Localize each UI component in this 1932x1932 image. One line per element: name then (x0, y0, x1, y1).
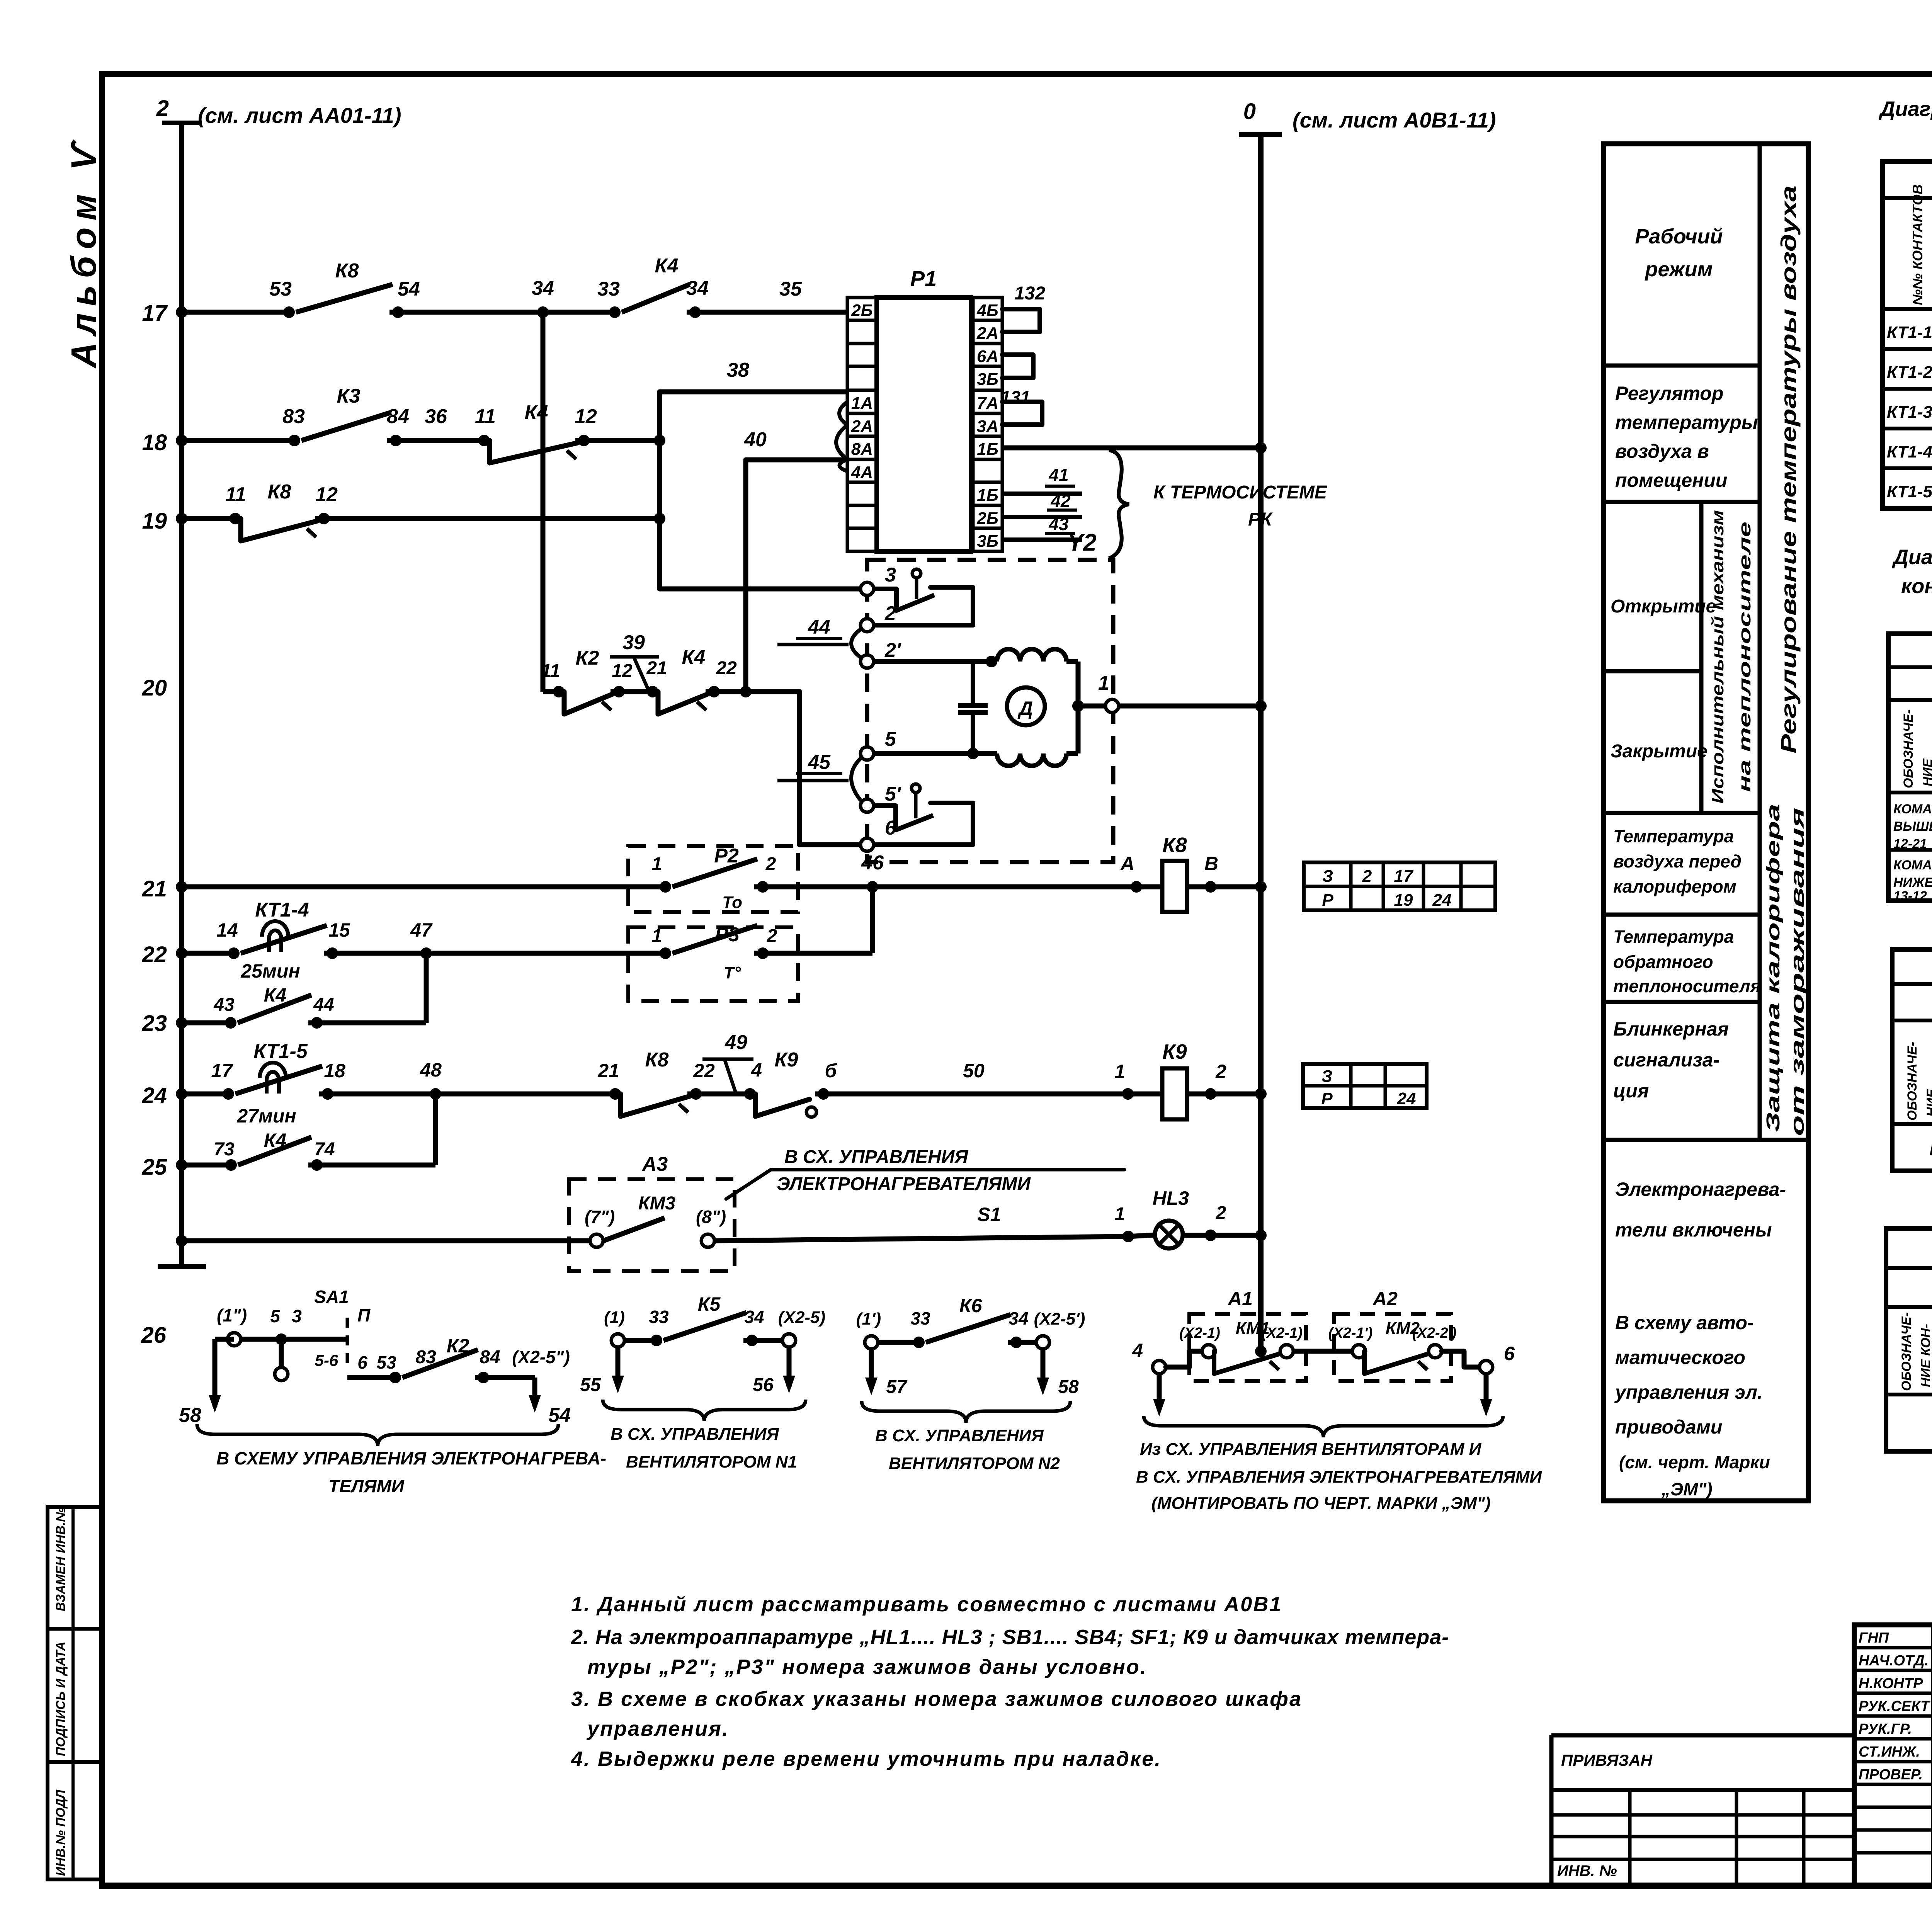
svg-text:НИЕ: НИЕ (1924, 1088, 1932, 1117)
row26 branch to 58 (215, 1337, 234, 1342)
svg-text:теплоносителя: теплоносителя (1613, 976, 1761, 996)
svg-text:К ТЕРМОСИСТЕМЕ: К ТЕРМОСИСТЕМЕ (1153, 482, 1328, 503)
P1 left jumpers 1A-2A-8A-4A (836, 402, 847, 471)
svg-text:1: 1 (652, 854, 662, 874)
svg-text:42: 42 (1050, 491, 1071, 511)
P1 right terminal 3Б (973, 528, 1002, 551)
svg-text:К3: К3 (337, 385, 361, 407)
svg-text:К4: К4 (525, 401, 548, 424)
P1 right terminal 6А (973, 344, 1002, 366)
svg-text:4. Выдержки реле времени ут: 4. Выдержки реле времени уточнить при на… (571, 1747, 1162, 1770)
wire P1-1B to bus 0 (1002, 446, 1261, 451)
terminal block P1 body (877, 298, 971, 551)
svg-text:27мин: 27мин (236, 1105, 296, 1127)
svg-text:НАЧ.ОТД.: НАЧ.ОТД. (1859, 1653, 1929, 1669)
svg-text:43: 43 (1048, 514, 1069, 534)
contact K3 83-84 row18 (301, 413, 390, 440)
P1 left terminal blank2 (847, 344, 877, 366)
svg-text:2Б: 2Б (851, 301, 873, 320)
svg-text:ПРОВЕР.: ПРОВЕР. (1859, 1767, 1923, 1783)
svg-text:К8: К8 (645, 1049, 669, 1071)
svg-text:„ЭМ"): „ЭМ") (1661, 1479, 1713, 1499)
A2 dashed box (1334, 1314, 1451, 1381)
Y2 terminal 2 (861, 619, 874, 632)
Y2 wire 5 line (874, 751, 997, 756)
svg-text:К8: К8 (1162, 833, 1187, 857)
svg-text:26: 26 (141, 1323, 166, 1348)
wire row 19 (182, 516, 235, 521)
svg-text:21: 21 (646, 658, 667, 679)
feeder vertical 34 to row 20 (541, 312, 546, 692)
svg-text:17: 17 (211, 1060, 233, 1082)
svg-text:ВЫШЕ: ВЫШЕ (1893, 819, 1932, 834)
svg-text:КОМАНДА: КОМАНДА (1893, 802, 1932, 816)
svg-text:24: 24 (1432, 891, 1452, 910)
P1 right loop to 131 (1002, 355, 1033, 378)
svg-text:49: 49 (724, 1031, 747, 1054)
svg-text:2: 2 (1216, 1203, 1226, 1223)
svg-text:1Б: 1Б (977, 440, 998, 459)
svg-text:К8: К8 (335, 260, 359, 282)
Y2 lower limit switch (874, 806, 896, 830)
svg-text:КТ1-4: КТ1-4 (255, 899, 309, 921)
svg-text:КМ3: КМ3 (638, 1193, 675, 1214)
svg-text:То: То (722, 893, 742, 912)
P1 right terminal 7А (973, 390, 1002, 413)
callout 49 row24 (724, 1059, 736, 1094)
row lines BC table (1883, 347, 1932, 351)
svg-text:В: В (1204, 853, 1218, 874)
feeder vertical to Y2-3 (660, 392, 867, 589)
legend table frame (1604, 144, 1808, 1501)
contact K4 11-12 row18 (490, 440, 578, 463)
svg-text:К5: К5 (698, 1293, 721, 1315)
svg-text:(Х2-5"): (Х2-5") (512, 1347, 570, 1367)
svg-text:Регулятор: Регулятор (1615, 383, 1723, 404)
P1 right terminal rblank7 (973, 459, 1002, 482)
svg-text:11: 11 (541, 661, 560, 681)
svg-text:34: 34 (532, 277, 554, 299)
svg-text:40: 40 (744, 429, 767, 451)
svg-text:33: 33 (649, 1307, 669, 1327)
svg-text:3Б: 3Б (977, 532, 998, 551)
svg-text:25мин: 25мин (240, 960, 300, 982)
svg-text:12: 12 (612, 661, 633, 681)
svg-text:помещении: помещении (1615, 469, 1727, 491)
svg-text:5: 5 (885, 728, 896, 750)
svg-text:Температура: Температура (1613, 927, 1734, 947)
contact K2 row26 (402, 1350, 478, 1378)
svg-text:2А: 2А (976, 324, 998, 343)
svg-text:44: 44 (313, 995, 334, 1015)
svg-text:ВЕНТИЛЯТОРОМ N1: ВЕНТИЛЯТОРОМ N1 (626, 1452, 797, 1471)
Y2 terminal 3 (861, 582, 874, 595)
P1 right terminal 1Б (973, 482, 1002, 505)
svg-text:ОБОЗНАЧЕ-: ОБОЗНАЧЕ- (1899, 1312, 1914, 1391)
svg-text:(Х2-1'): (Х2-1') (1328, 1325, 1373, 1341)
vertical 47 to row23 (424, 953, 429, 1023)
svg-text:12: 12 (575, 405, 597, 428)
svg-text:управления эл.: управления эл. (1614, 1381, 1763, 1403)
feeder vertical 40 to row 20 (743, 460, 748, 692)
svg-text:КТ1-3: КТ1-3 (1887, 403, 1932, 422)
P1 left terminal 2А (847, 413, 877, 436)
brace to thermosystem (1109, 450, 1129, 558)
svg-text:ИНВ. №: ИНВ. № (1557, 1862, 1617, 1879)
svg-text:К2: К2 (447, 1335, 469, 1357)
svg-text:58: 58 (1058, 1377, 1079, 1397)
svg-text:3: 3 (292, 1306, 302, 1326)
P1 left terminal blank8 (847, 482, 877, 505)
table BC-10-64 frame (1883, 162, 1932, 509)
svg-text:13-12: 13-12 (1893, 889, 1927, 903)
svg-text:ИНВ.№ ПОДЛ: ИНВ.№ ПОДЛ (53, 1789, 68, 1876)
svg-text:1. Данный лист рассматривать: 1. Данный лист рассматривать совместно с… (571, 1593, 1282, 1616)
svg-text:34: 34 (1009, 1308, 1028, 1328)
P1 left terminal 1А (847, 390, 877, 413)
svg-text:4: 4 (1132, 1340, 1143, 1361)
wire 43 thermo (1002, 537, 1082, 542)
svg-text:19: 19 (1394, 891, 1413, 910)
vertical 46 to P3 (870, 887, 875, 953)
Y2 terminal 5 (861, 747, 874, 760)
svg-text:22: 22 (716, 658, 737, 679)
svg-text:3. В схеме в скобках указан: 3. В схеме в скобках указаны номера зажи… (571, 1687, 1302, 1711)
svg-text:11: 11 (225, 483, 246, 506)
svg-text:В СХ. УПРАВЛЕНИЯ: В СХ. УПРАВЛЕНИЯ (611, 1425, 779, 1444)
motor right side (1076, 662, 1081, 753)
P1 left terminal blank1 (847, 320, 877, 344)
brace heater control (197, 1424, 558, 1446)
svg-text:(Х2-1): (Х2-1) (1262, 1325, 1303, 1341)
P1 left terminal 2Б (847, 298, 877, 320)
svg-text:4А: 4А (851, 463, 873, 482)
svg-text:К4: К4 (264, 984, 287, 1006)
wire row 24 to K8 contact (435, 1092, 615, 1097)
Y2 terminal 1 and wire to bus (1072, 700, 1084, 712)
svg-text:Y2: Y2 (1067, 529, 1097, 556)
svg-text:А: А (1120, 853, 1134, 874)
svg-text:(Х2-5'): (Х2-5') (1034, 1310, 1085, 1328)
svg-text:53: 53 (376, 1352, 396, 1372)
svg-text:8А: 8А (851, 440, 873, 459)
svg-text:33: 33 (597, 278, 620, 300)
svg-text:ПОДПИСЬ И ДАТА: ПОДПИСЬ И ДАТА (53, 1641, 68, 1756)
svg-text:43: 43 (213, 995, 235, 1015)
svg-text:38: 38 (727, 359, 749, 381)
wire row 17 left (182, 310, 289, 315)
svg-text:ТЕЛЯМИ: ТЕЛЯМИ (328, 1476, 405, 1496)
svg-text:HL3: HL3 (1153, 1187, 1189, 1209)
svg-text:5-6: 5-6 (315, 1351, 338, 1369)
wire row KM3 (182, 1238, 597, 1243)
svg-text:от замораживания: от замораживания (1787, 808, 1808, 1136)
svg-text:46: 46 (861, 852, 884, 874)
svg-text:39: 39 (622, 631, 645, 654)
bus 0 vertical (1258, 133, 1264, 1351)
svg-text:А1: А1 (1227, 1288, 1253, 1310)
svg-text:14: 14 (216, 919, 238, 941)
wire row 18 (182, 438, 294, 443)
motor D circle (1007, 687, 1045, 725)
motor bottom winding (997, 753, 1066, 766)
P1 tbl rows (1888, 848, 1932, 852)
svg-text:132: 132 (1014, 283, 1045, 304)
svg-text:58: 58 (179, 1404, 201, 1427)
svg-text:84: 84 (387, 405, 409, 428)
contact K2 row20 (564, 692, 613, 714)
capacitor (971, 662, 975, 706)
svg-text:(Х2-5): (Х2-5) (778, 1308, 825, 1327)
bus 2 vertical (179, 122, 184, 1267)
svg-text:ВЗАМЕН ИНВ.№: ВЗАМЕН ИНВ.№ (53, 1507, 68, 1611)
svg-text:К4: К4 (264, 1129, 287, 1151)
svg-text:21: 21 (141, 876, 167, 901)
svg-text:Н.КОНТР: Н.КОНТР (1859, 1675, 1923, 1692)
A1 dashed box (1189, 1314, 1306, 1381)
svg-text:35: 35 (779, 278, 802, 300)
leader to heater control text (726, 1170, 1124, 1199)
svg-text:23: 23 (141, 1011, 167, 1036)
Y2 upper limit switch (874, 589, 896, 611)
svg-text:5': 5' (885, 783, 901, 805)
svg-text:№№ КОНТАКТОВ: №№ КОНТАКТОВ (1910, 184, 1925, 305)
svg-text:калорифером: калорифером (1613, 876, 1736, 896)
svg-text:РК: РК (1248, 509, 1273, 530)
node 34 junction row17 (537, 306, 549, 318)
brace A1A2 (1144, 1416, 1503, 1437)
svg-text:54: 54 (398, 278, 420, 300)
svg-text:(1"): (1") (217, 1305, 247, 1325)
svg-text:КТ1-5: КТ1-5 (253, 1040, 308, 1063)
svg-text:ВЕНТИЛЯТОРОМ N2: ВЕНТИЛЯТОРОМ N2 (889, 1454, 1060, 1473)
time contact KT1-4 row22 (241, 925, 327, 953)
wire 40 to P1-4A (746, 457, 847, 463)
brace fan2 (862, 1401, 1070, 1423)
svg-text:34: 34 (744, 1307, 764, 1327)
svg-text:2: 2 (765, 854, 776, 874)
svg-text:Блинкерная: Блинкерная (1613, 1018, 1729, 1040)
contact K4 row23 (238, 995, 311, 1023)
svg-text:3: 3 (885, 564, 896, 586)
svg-text:Температура: Температура (1613, 826, 1734, 846)
A1 A2 incoming circuit (1153, 1361, 1166, 1374)
P1 right terminal 4Б (973, 298, 1002, 320)
brace fan1 (603, 1400, 806, 1421)
svg-text:К6: К6 (959, 1295, 983, 1316)
svg-text:1: 1 (1114, 1061, 1125, 1082)
svg-text:SA1: SA1 (314, 1287, 349, 1307)
svg-text:Р: Р (1321, 1089, 1333, 1108)
svg-text:(см. лист АА01-11): (см. лист АА01-11) (198, 103, 401, 128)
link 44 between 2-2p (851, 629, 861, 658)
svg-text:57: 57 (886, 1377, 908, 1397)
svg-text:СТ.ИНЖ.: СТ.ИНЖ. (1859, 1744, 1920, 1760)
svg-text:1Б: 1Б (977, 486, 998, 505)
svg-text:КТ1-2: КТ1-2 (1887, 363, 1932, 382)
svg-text:К9: К9 (1162, 1040, 1187, 1063)
svg-text:Электронагрева-: Электронагрева- (1615, 1179, 1786, 1200)
contact KM1 (1214, 1351, 1281, 1374)
svg-text:КТ1-5: КТ1-5 (1887, 482, 1932, 501)
svg-text:(см. лист А0В1-11): (см. лист А0В1-11) (1293, 108, 1496, 132)
svg-text:З: З (1321, 1067, 1332, 1086)
contact K4 row25 (238, 1137, 311, 1165)
svg-text:(Х2-2'): (Х2-2') (1412, 1325, 1457, 1341)
svg-text:В СХ. УПРАВЛЕНИЯ: В СХ. УПРАВЛЕНИЯ (784, 1147, 968, 1167)
title block outer (1854, 1625, 1932, 1886)
P1 right terminal 3А (973, 413, 1002, 436)
vertical 48 to row25 (433, 1094, 438, 1165)
svg-text:НИЖЕ: НИЖЕ (1893, 875, 1932, 890)
svg-text:44: 44 (808, 616, 830, 638)
P2 dashed box (628, 846, 798, 912)
svg-text:режим: режим (1645, 258, 1713, 281)
svg-text:1А: 1А (851, 394, 873, 413)
actuator Y2 dashed box (867, 560, 1113, 862)
svg-text:сигнализа-: сигнализа- (1613, 1049, 1719, 1071)
svg-text:33: 33 (910, 1308, 930, 1328)
svg-text:131: 131 (1001, 387, 1031, 407)
svg-text:НИЕ КОН-: НИЕ КОН- (1918, 1324, 1932, 1387)
svg-text:6А: 6А (977, 347, 998, 366)
svg-text:РУК.ГР.: РУК.ГР. (1859, 1721, 1912, 1737)
fan2 circuit K6 (865, 1336, 878, 1349)
svg-text:матического: матического (1615, 1347, 1745, 1368)
wire row 22 to P3 (426, 951, 665, 956)
svg-text:РУК.СЕКТ: РУК.СЕКТ (1859, 1698, 1930, 1714)
wire 42 thermo (1002, 515, 1082, 519)
svg-text:контактов регуляторов: контактов регуляторов (1901, 575, 1932, 598)
wire 35 to P1-2B (687, 310, 847, 315)
Y2 terminal 5p (861, 799, 874, 812)
wire row 20 to Y2-6 (746, 692, 867, 845)
callout 39 row20 (634, 657, 649, 692)
svg-text:температуры: температуры (1615, 412, 1758, 433)
table P2 frame (1892, 949, 1932, 1171)
svg-text:21: 21 (597, 1060, 619, 1082)
svg-text:2: 2 (1362, 867, 1372, 886)
svg-text:0: 0 (1243, 99, 1256, 124)
svg-text:54: 54 (548, 1404, 571, 1427)
svg-text:6: 6 (357, 1352, 367, 1372)
svg-text:КТ1-1: КТ1-1 (1887, 323, 1932, 342)
svg-text:17: 17 (1394, 867, 1414, 886)
SA1 pole circuit row26 (228, 1333, 241, 1346)
svg-text:Защита калорифера: Защита калорифера (1763, 804, 1784, 1132)
left margin strip (48, 1507, 103, 1879)
svg-text:К4: К4 (655, 255, 679, 277)
svg-text:К8: К8 (268, 481, 291, 503)
wire row 17 middle (389, 310, 615, 315)
wire table row24 (1303, 1064, 1427, 1108)
P1 right loop 7A-3A (1002, 402, 1042, 425)
svg-text:24: 24 (1397, 1089, 1416, 1108)
wire 38 to P1-1A (660, 389, 847, 395)
P1 right terminal 2Б (973, 505, 1002, 528)
svg-text:22: 22 (693, 1060, 715, 1082)
svg-text:управления.: управления. (586, 1717, 729, 1740)
contact KM3 (590, 1234, 603, 1247)
svg-text:47: 47 (410, 919, 433, 941)
svg-text:(1'): (1') (856, 1310, 881, 1328)
wire 41 thermo (1002, 492, 1082, 496)
svg-text:15: 15 (328, 919, 350, 941)
svg-text:56: 56 (753, 1375, 774, 1395)
table P3 frame (1886, 1228, 1932, 1451)
svg-text:Р: Р (1322, 891, 1333, 910)
svg-text:(МОНТИРОВАТЬ ПО ЧЕРТ. МАРКИ: (МОНТИРОВАТЬ ПО ЧЕРТ. МАРКИ „ЭМ") (1151, 1494, 1491, 1513)
svg-text:55: 55 (580, 1375, 601, 1395)
svg-text:50: 50 (963, 1060, 985, 1082)
svg-text:Рабочий: Рабочий (1635, 225, 1723, 248)
P1 left terminal blank9 (847, 505, 877, 528)
svg-text:К2: К2 (576, 647, 599, 669)
svg-text:6: 6 (1504, 1343, 1515, 1364)
svg-text:84: 84 (480, 1347, 500, 1367)
wire row 24 (182, 1092, 228, 1097)
svg-text:25: 25 (141, 1155, 167, 1180)
Y2 terminal 2p (861, 655, 874, 668)
wire row 22 (182, 951, 234, 956)
svg-text:Открытие: Открытие (1611, 596, 1716, 617)
svg-text:(8"): (8") (696, 1207, 726, 1227)
svg-text:А2: А2 (1372, 1288, 1398, 1310)
svg-text:туры „Р2"; „Р3" номера зажи: туры „Р2"; „Р3" номера зажимов даны усло… (587, 1655, 1147, 1679)
svg-text:11: 11 (475, 405, 496, 428)
svg-text:Закрытие: Закрытие (1611, 741, 1708, 762)
contact K9 row24 (755, 1094, 810, 1116)
P1 left terminal 4А (847, 459, 877, 482)
contact K8 row24 (621, 1094, 690, 1116)
svg-text:воздуха перед: воздуха перед (1613, 851, 1742, 871)
P1 right terminal 1Б (973, 436, 1002, 459)
svg-text:Исполнительный механизм: Исполнительный механизм (1708, 510, 1727, 804)
svg-text:В СХ. УПРАВЛЕНИЯ: В СХ. УПРАВЛЕНИЯ (875, 1426, 1044, 1445)
wire table row21 (1304, 862, 1495, 910)
svg-text:ГНП: ГНП (1859, 1630, 1889, 1646)
svg-text:Диаграмма работы контактов: Диаграмма работы контактов (1879, 97, 1932, 121)
svg-text:3Б: 3Б (977, 370, 998, 389)
svg-text:2А: 2А (851, 417, 873, 436)
contact P2 row21 (672, 859, 757, 887)
svg-text:18: 18 (142, 430, 167, 455)
P1 right terminal 2А (973, 320, 1002, 344)
Y2 terminal 6 (861, 838, 874, 851)
svg-text:(7"): (7") (585, 1207, 615, 1227)
svg-text:2. На электроаппаратуре „HL1.: 2. На электроаппаратуре „HL1.... HL3 ; S… (571, 1626, 1449, 1649)
contact K8 11-12 row19 (241, 519, 318, 541)
svg-text:73: 73 (214, 1139, 235, 1160)
wire row 23 (182, 1020, 231, 1026)
svg-text:2Б: 2Б (976, 509, 998, 528)
svg-text:41: 41 (1048, 465, 1068, 485)
P1 right terminal 3Б (973, 366, 1002, 390)
svg-text:НИЕ: НИЕ (1920, 758, 1932, 786)
svg-text:2: 2 (767, 926, 777, 946)
svg-text:воздуха в: воздуха в (1615, 440, 1709, 462)
contact K4 row20 (658, 692, 708, 714)
svg-text:тели включены: тели включены (1615, 1219, 1772, 1241)
contact K4 33-34 row17 (609, 306, 621, 318)
svg-text:1: 1 (1098, 672, 1109, 694)
svg-text:12-21: 12-21 (1893, 837, 1927, 851)
svg-text:I: I (1929, 1139, 1932, 1160)
svg-text:18: 18 (324, 1060, 345, 1082)
svg-text:7А: 7А (977, 394, 998, 413)
svg-text:Альбом Ѵ: Альбом Ѵ (64, 136, 104, 369)
svg-text:КТ1-4: КТ1-4 (1887, 442, 1932, 461)
